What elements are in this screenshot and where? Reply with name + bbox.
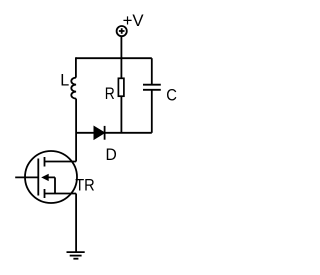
capacitor C bottom plate bbox=[143, 89, 161, 91]
diode D triangle bbox=[94, 126, 105, 139]
capacitor C bottom lead bbox=[151, 90, 153, 133]
wire source to ground bbox=[75, 194, 77, 253]
transistor TR body circle bbox=[25, 151, 77, 203]
ground bar 3 bbox=[73, 258, 78, 260]
svg-text:R: R bbox=[105, 85, 115, 103]
transistor TR drain wire bbox=[45, 161, 77, 163]
ground bar 2 bbox=[70, 255, 82, 257]
svg-text:L: L bbox=[60, 72, 69, 90]
+V supply terminal bbox=[117, 26, 127, 36]
wire +V terminal to top rail bbox=[120, 36, 122, 58]
capacitor C top lead bbox=[151, 58, 153, 84]
transistor TR substrate arrow head bbox=[42, 175, 48, 181]
plus sign inside terminal bbox=[119, 28, 125, 34]
transistor TR gate bar bbox=[37, 159, 39, 196]
diode D cathode bar bbox=[104, 126, 106, 140]
transistor TR drain channel tick bbox=[44, 157, 46, 167]
ground bar 1 bbox=[67, 251, 85, 253]
svg-text:TR: TR bbox=[75, 177, 95, 195]
transistor TR substrate arrow tail bbox=[47, 177, 55, 193]
transistor TR gate lead bbox=[15, 176, 38, 178]
resistor R body bbox=[118, 78, 124, 96]
resistor R bottom lead bbox=[120, 96, 122, 133]
wire diode row right bbox=[105, 132, 152, 134]
wire inductor bottom to drain corner bbox=[75, 99, 77, 162]
resistor R top lead bbox=[120, 58, 122, 78]
svg-text:+V: +V bbox=[123, 12, 144, 30]
wire rail to inductor top bbox=[75, 57, 77, 77]
wire diode row left bbox=[76, 132, 94, 134]
wire top rail bbox=[76, 57, 152, 59]
transistor TR source channel tick bbox=[44, 189, 46, 198]
svg-text:C: C bbox=[166, 87, 177, 105]
transistor TR source wire bbox=[45, 193, 77, 195]
svg-text:D: D bbox=[106, 146, 117, 164]
inductor L bbox=[71, 78, 76, 99]
capacitor C top plate bbox=[143, 84, 161, 86]
